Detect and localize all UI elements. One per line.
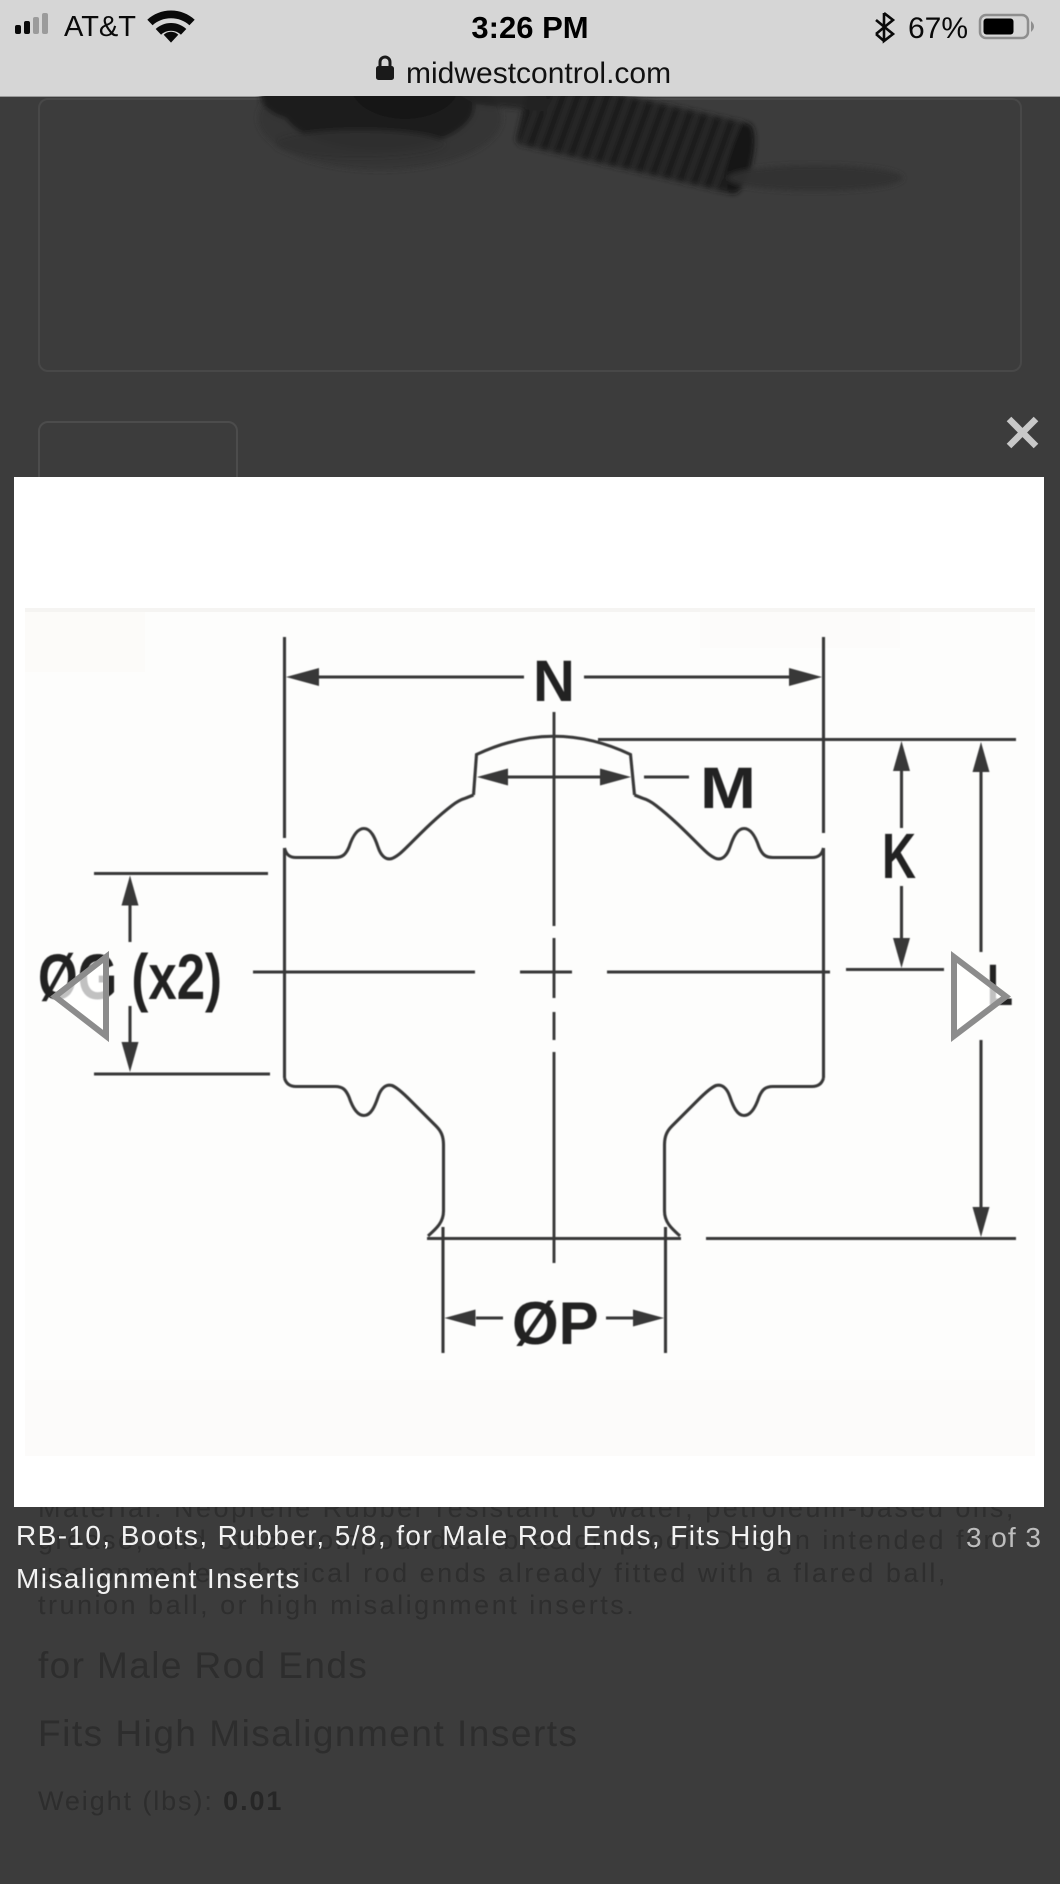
OG dimension lines <box>94 872 268 875</box>
next arrow <box>940 945 1020 1045</box>
status bar <box>0 0 1060 97</box>
caption <box>16 1514 956 1600</box>
product photo <box>240 96 960 216</box>
lower shoulder right <box>665 1078 824 1236</box>
center line horizontal <box>253 971 830 974</box>
svg-text:N: N <box>533 649 575 714</box>
technical drawing <box>14 477 1044 1507</box>
svg-text:K: K <box>882 820 916 892</box>
top reference line <box>598 738 1016 741</box>
N dimension <box>305 675 524 678</box>
wifi icon <box>147 11 194 43</box>
page text behind overlay (darkened) <box>38 1492 1038 1621</box>
bottom reference line right <box>706 1237 1016 1240</box>
lower shoulder left <box>285 1078 444 1236</box>
battery <box>980 15 1034 38</box>
svg-text:M: M <box>700 756 756 821</box>
upper bell left <box>285 795 474 859</box>
svg-text:midwestcontrol.com: midwestcontrol.com <box>406 57 671 90</box>
body cap <box>474 736 635 795</box>
white modal <box>14 477 1044 1507</box>
center line vertical <box>553 712 556 1263</box>
OP extension lines <box>441 1227 444 1353</box>
product image box (darkened behind overlay) <box>38 98 1022 372</box>
K dimension <box>900 770 903 828</box>
upper bell right <box>635 795 824 859</box>
small box (thumbnail container) top edge <box>38 421 238 495</box>
svg-text:3:26 PM: 3:26 PM <box>471 10 588 45</box>
svg-text:ØP: ØP <box>512 1290 599 1357</box>
OP dimension <box>476 1316 503 1319</box>
bluetooth <box>876 13 893 41</box>
M dimension <box>502 775 601 778</box>
side walls <box>283 848 286 1078</box>
N extension lines <box>283 637 286 838</box>
prev arrow <box>40 945 120 1045</box>
signal bars <box>15 13 48 34</box>
svg-text:AT&T: AT&T <box>64 11 136 43</box>
lock <box>376 57 394 80</box>
bottom edge <box>427 1237 681 1240</box>
L dimension <box>979 771 982 952</box>
close X <box>1000 410 1045 455</box>
svg-text:67%: 67% <box>908 12 968 45</box>
